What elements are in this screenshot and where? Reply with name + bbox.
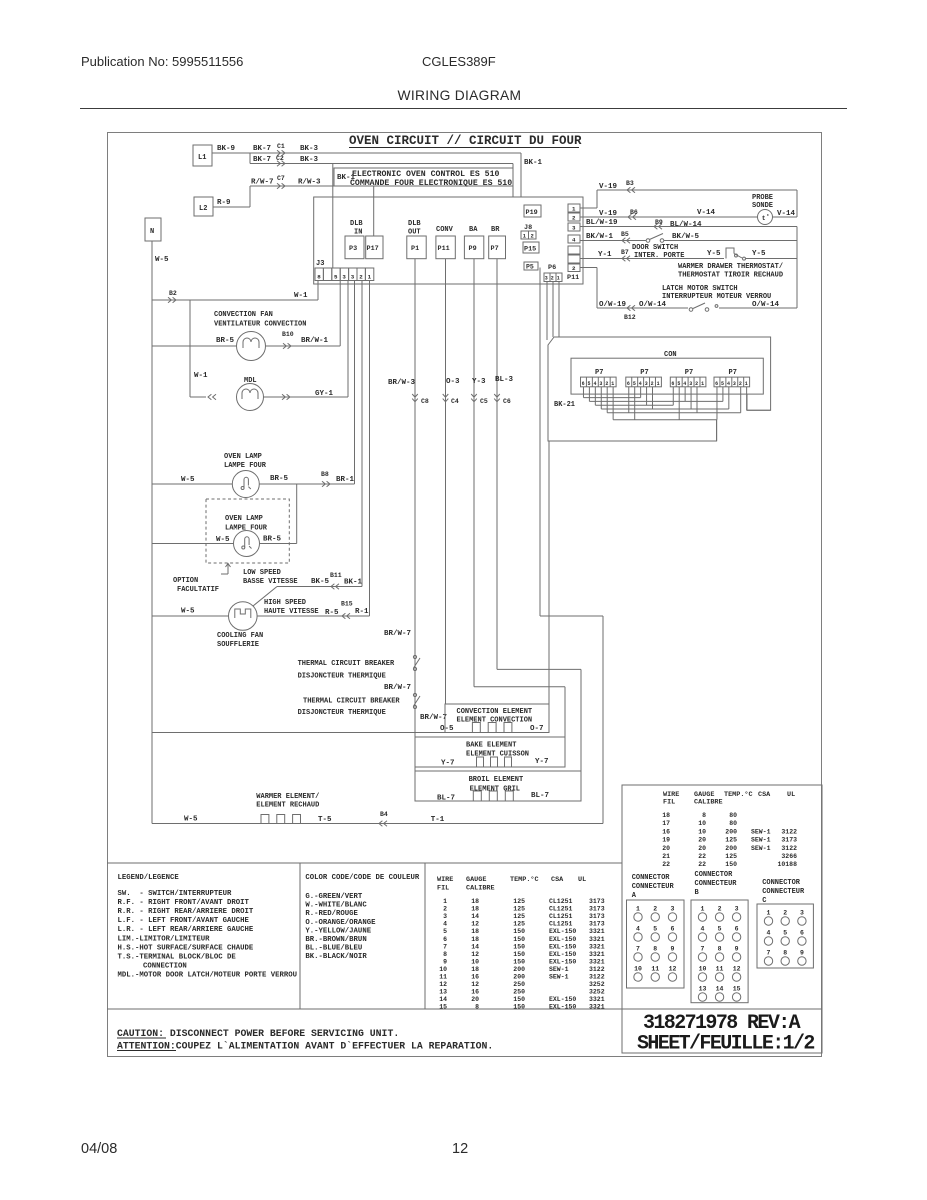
svg-text:BR/W-3: BR/W-3 bbox=[388, 379, 416, 387]
svg-text:DLB: DLB bbox=[350, 220, 363, 228]
connector P6 3-pin strip bbox=[544, 273, 562, 282]
wire BK-7/BK-3 line 2 bbox=[250, 153, 513, 164]
svg-text:9: 9 bbox=[735, 946, 739, 953]
svg-text:Y-5: Y-5 bbox=[752, 250, 766, 258]
svg-text:BA: BA bbox=[469, 226, 478, 234]
wire BL-3 from P7 down to broil element bbox=[495, 259, 581, 801]
svg-text:P15: P15 bbox=[524, 246, 536, 254]
warmer drawer thermostat label bbox=[678, 263, 783, 280]
svg-text:W.-WHITE/BLANC: W.-WHITE/BLANC bbox=[305, 902, 367, 910]
svg-text:P11: P11 bbox=[567, 274, 579, 282]
svg-text:BR-5: BR-5 bbox=[270, 475, 289, 483]
cooling fan label bbox=[217, 632, 263, 649]
svg-text:1: 1 bbox=[557, 276, 560, 282]
svg-text:20: 20 bbox=[698, 837, 706, 844]
warmer element label bbox=[256, 793, 319, 810]
splice B11 bbox=[331, 584, 339, 590]
svg-text:INTERRUPTEUR MOTEUR VERROU: INTERRUPTEUR MOTEUR VERROU bbox=[662, 293, 771, 301]
svg-text:O.-ORANGE/ORANGE: O.-ORANGE/ORANGE bbox=[305, 919, 376, 927]
svg-text:80: 80 bbox=[729, 812, 737, 819]
svg-text:4: 4 bbox=[767, 930, 771, 937]
svg-text:COOLING FAN: COOLING FAN bbox=[217, 632, 263, 640]
page header publication number bbox=[81, 54, 243, 69]
svg-text:8: 8 bbox=[702, 812, 706, 819]
wire P5 branch down to bottom rail bbox=[540, 268, 603, 824]
svg-text:EXL-150: EXL-150 bbox=[549, 936, 576, 943]
svg-text:SHEET/FEUILLE:1/2: SHEET/FEUILLE:1/2 bbox=[637, 1033, 814, 1056]
svg-text:BL/W-19: BL/W-19 bbox=[586, 219, 618, 227]
svg-text:5: 5 bbox=[443, 928, 447, 935]
svg-text:Y-7: Y-7 bbox=[535, 758, 549, 766]
svg-text:12: 12 bbox=[471, 921, 479, 928]
svg-text:3: 3 bbox=[689, 381, 692, 387]
svg-text:FIL: FIL bbox=[437, 885, 449, 893]
svg-text:J3: J3 bbox=[316, 260, 324, 268]
svg-text:R.F. - RIGHT FRONT/AVANT DROIT: R.F. - RIGHT FRONT/AVANT DROIT bbox=[118, 899, 250, 907]
connector BR label bbox=[491, 226, 500, 234]
svg-text:O/W-14: O/W-14 bbox=[639, 301, 667, 309]
splice B8 bbox=[322, 481, 330, 487]
splice B7 bbox=[622, 256, 630, 262]
svg-text:3321: 3321 bbox=[589, 951, 605, 958]
wire W-5 to oven lamp 1 bbox=[152, 476, 232, 484]
connector P7 on board bbox=[489, 236, 506, 259]
svg-text:BL-7: BL-7 bbox=[437, 795, 455, 803]
svg-text:10: 10 bbox=[698, 820, 706, 827]
svg-text:1: 1 bbox=[701, 906, 705, 913]
svg-text:Y-5: Y-5 bbox=[707, 250, 721, 258]
svg-text:3321: 3321 bbox=[589, 928, 605, 935]
svg-text:LIM.-LIMITOR/LIMITEUR: LIM.-LIMITOR/LIMITEUR bbox=[118, 935, 211, 943]
svg-text:3252: 3252 bbox=[589, 981, 605, 988]
svg-text:OVEN LAMP: OVEN LAMP bbox=[224, 453, 262, 461]
svg-text:5: 5 bbox=[718, 926, 722, 933]
wires P6 pins down to CON box bbox=[547, 282, 559, 341]
svg-text:P11: P11 bbox=[438, 245, 450, 253]
caution text bbox=[117, 1028, 493, 1052]
svg-text:LEGEND/LEGENCE: LEGEND/LEGENCE bbox=[118, 874, 180, 882]
svg-text:150: 150 bbox=[513, 958, 525, 965]
svg-text:CONNECTOR: CONNECTOR bbox=[632, 874, 671, 882]
splice B5 bbox=[622, 238, 630, 244]
svg-text:O-3: O-3 bbox=[446, 378, 460, 386]
svg-text:C5: C5 bbox=[480, 398, 488, 405]
motor convection fan bbox=[237, 332, 266, 361]
svg-text:3122: 3122 bbox=[589, 966, 605, 973]
svg-text:17: 17 bbox=[662, 820, 670, 827]
svg-text:L.R. - LEFT REAR/ARRIERE GAUCH: L.R. - LEFT REAR/ARRIERE GAUCHE bbox=[118, 926, 254, 934]
svg-text:8: 8 bbox=[653, 946, 657, 953]
svg-text:150: 150 bbox=[513, 936, 525, 943]
svg-text:2: 2 bbox=[651, 381, 654, 387]
svg-text:P17: P17 bbox=[367, 245, 379, 253]
svg-text:11: 11 bbox=[651, 966, 659, 973]
svg-text:CL1251: CL1251 bbox=[549, 921, 573, 928]
svg-text:MDL: MDL bbox=[244, 377, 257, 385]
svg-text:2: 2 bbox=[718, 906, 722, 913]
svg-text:W-1: W-1 bbox=[294, 292, 308, 300]
svg-text:CONNECTOR: CONNECTOR bbox=[762, 879, 801, 887]
svg-text:W-5: W-5 bbox=[181, 608, 195, 616]
wire drop line2 to board at box edge bbox=[512, 164, 514, 198]
svg-text:P7: P7 bbox=[685, 369, 693, 377]
svg-text:Publication No: 5995511556: Publication No: 5995511556 bbox=[81, 54, 243, 69]
svg-text:R.-RED/ROUGE: R.-RED/ROUGE bbox=[305, 910, 358, 918]
splice B2 bbox=[168, 297, 176, 303]
svg-text:OPTION: OPTION bbox=[173, 577, 198, 585]
svg-text:UL: UL bbox=[787, 791, 795, 799]
low speed label bbox=[243, 569, 298, 586]
svg-text:B12: B12 bbox=[624, 314, 636, 321]
svg-text:P3: P3 bbox=[349, 245, 357, 253]
svg-text:7: 7 bbox=[443, 943, 447, 950]
svg-text:15: 15 bbox=[733, 986, 741, 993]
svg-text:CONNECTEUR: CONNECTEUR bbox=[695, 880, 738, 888]
svg-text:6: 6 bbox=[443, 936, 447, 943]
svg-text:150: 150 bbox=[513, 1004, 525, 1011]
svg-text:IN: IN bbox=[354, 229, 362, 237]
svg-text:W-5: W-5 bbox=[181, 476, 195, 484]
svg-text:EXL-150: EXL-150 bbox=[549, 928, 576, 935]
svg-text:B10: B10 bbox=[282, 331, 294, 338]
svg-text:125: 125 bbox=[725, 837, 737, 844]
svg-text:1: 1 bbox=[657, 381, 660, 387]
svg-text:B4: B4 bbox=[380, 811, 388, 818]
svg-text:FACULTATIF: FACULTATIF bbox=[177, 586, 219, 594]
connector J3 label bbox=[316, 260, 324, 268]
svg-text:FIL: FIL bbox=[663, 799, 675, 807]
svg-text:B11: B11 bbox=[330, 572, 342, 579]
svg-text:BR-5: BR-5 bbox=[216, 337, 235, 345]
svg-text:B8: B8 bbox=[321, 471, 329, 478]
board edge pin boxes 1-4 and 2 bbox=[568, 204, 580, 272]
warmer drawer thermostat switch bbox=[707, 248, 766, 260]
svg-text:19: 19 bbox=[662, 837, 670, 844]
svg-text:BK-7: BK-7 bbox=[253, 145, 271, 153]
svg-text:3321: 3321 bbox=[589, 936, 605, 943]
svg-text:5: 5 bbox=[633, 381, 636, 387]
svg-text:BK-1: BK-1 bbox=[344, 579, 363, 587]
svg-text:P7: P7 bbox=[640, 369, 648, 377]
svg-text:6: 6 bbox=[735, 926, 739, 933]
svg-text:2: 2 bbox=[653, 906, 657, 913]
svg-text:CONNECTOR: CONNECTOR bbox=[695, 871, 734, 879]
svg-text:150: 150 bbox=[513, 996, 525, 1003]
connector P11 bbox=[436, 236, 455, 259]
svg-text:10: 10 bbox=[471, 958, 479, 965]
svg-text:P7: P7 bbox=[729, 369, 737, 377]
svg-text:DOOR SWITCH: DOOR SWITCH bbox=[632, 244, 678, 252]
svg-text:B3: B3 bbox=[626, 180, 634, 187]
wire BR/W-1 from convection fan to J3 bbox=[266, 281, 341, 347]
svg-text:GAUGE: GAUGE bbox=[466, 876, 486, 884]
svg-text:CONNECTEUR: CONNECTEUR bbox=[632, 883, 675, 891]
connector J8 label bbox=[524, 224, 532, 232]
wire CON box right drop to convection element bbox=[548, 441, 550, 704]
svg-text:CL1251: CL1251 bbox=[549, 906, 573, 913]
header rule bbox=[80, 108, 847, 110]
svg-text:LOW SPEED: LOW SPEED bbox=[243, 569, 281, 577]
splice C6 bbox=[494, 394, 511, 405]
svg-text:3252: 3252 bbox=[589, 989, 605, 996]
page header model CGLES389F bbox=[422, 54, 496, 69]
svg-text:CONV: CONV bbox=[436, 226, 454, 234]
wire R-9 from L2 bbox=[213, 186, 250, 207]
svg-text:WARMER DRAWER THERMOSTAT/: WARMER DRAWER THERMOSTAT/ bbox=[678, 263, 783, 271]
splice C5 bbox=[471, 394, 488, 405]
electronic oven control label box ES 510 bbox=[334, 168, 513, 188]
svg-text:4: 4 bbox=[639, 381, 642, 387]
svg-text:V-19: V-19 bbox=[599, 210, 618, 218]
svg-text:BL-7: BL-7 bbox=[531, 792, 549, 800]
wire O/W-14 to right rail bbox=[719, 259, 797, 310]
connector P6 label bbox=[548, 264, 556, 272]
svg-text:3: 3 bbox=[572, 225, 576, 232]
svg-text:4: 4 bbox=[727, 381, 730, 387]
svg-text:THERMAL CIRCUIT BREAKER: THERMAL CIRCUIT BREAKER bbox=[303, 698, 400, 706]
wire BK-21 label bbox=[554, 401, 575, 409]
svg-text:6: 6 bbox=[582, 381, 585, 387]
svg-text:4: 4 bbox=[572, 237, 576, 244]
svg-text:125: 125 bbox=[513, 898, 525, 905]
svg-text:WIRING DIAGRAM: WIRING DIAGRAM bbox=[398, 88, 522, 103]
connector DLB IN label bbox=[350, 220, 363, 237]
svg-text:SEW-1: SEW-1 bbox=[549, 966, 569, 973]
svg-text:20: 20 bbox=[471, 996, 479, 1003]
svg-text:3173: 3173 bbox=[589, 898, 605, 905]
wire gauge table (bottom middle) bbox=[437, 875, 605, 1011]
svg-text:2: 2 bbox=[531, 233, 534, 240]
svg-text:t: t bbox=[762, 215, 766, 222]
wire Y-3 from P9 down to bake element bbox=[472, 259, 565, 767]
page title WIRING DIAGRAM bbox=[398, 88, 522, 103]
svg-text:8: 8 bbox=[783, 950, 787, 957]
svg-text:O/W-14: O/W-14 bbox=[752, 301, 780, 309]
svg-text:10: 10 bbox=[439, 966, 447, 973]
svg-text:N: N bbox=[150, 228, 154, 236]
svg-text:150: 150 bbox=[725, 861, 737, 868]
svg-text:BK.-BLACK/NOIR: BK.-BLACK/NOIR bbox=[305, 953, 367, 961]
svg-text:W-5: W-5 bbox=[184, 816, 198, 824]
wire BK-9/BK-7/BK-3 line 1 bbox=[212, 145, 521, 153]
svg-text:P6: P6 bbox=[548, 264, 556, 272]
svg-text:18: 18 bbox=[471, 928, 479, 935]
splice B6 bbox=[628, 214, 636, 220]
svg-text:10: 10 bbox=[698, 828, 706, 835]
svg-text:4: 4 bbox=[443, 921, 447, 928]
connector DLB OUT label bbox=[408, 220, 421, 237]
svg-text:BASSE VITESSE: BASSE VITESSE bbox=[243, 578, 298, 586]
door switch INTER. PORTE bbox=[632, 234, 684, 261]
svg-text:4: 4 bbox=[593, 381, 596, 387]
svg-text:EXL-150: EXL-150 bbox=[549, 1004, 576, 1011]
connector BA label bbox=[469, 226, 478, 234]
svg-text:THERMAL CIRCUIT BREAKER: THERMAL CIRCUIT BREAKER bbox=[298, 660, 395, 668]
svg-text:P1: P1 bbox=[411, 245, 419, 253]
splice C7 bbox=[277, 175, 285, 189]
svg-text:EXL-150: EXL-150 bbox=[549, 996, 576, 1003]
svg-text:2: 2 bbox=[572, 265, 576, 272]
svg-text:BK-3: BK-3 bbox=[300, 145, 319, 153]
svg-text:ELEMENT GRIL: ELEMENT GRIL bbox=[470, 786, 520, 794]
svg-text:6: 6 bbox=[627, 381, 630, 387]
svg-text:BK-5: BK-5 bbox=[311, 578, 330, 586]
svg-text:COMMANDE FOUR ELECTRONIQUE ES: COMMANDE FOUR ELECTRONIQUE ES 510 bbox=[350, 179, 512, 188]
svg-text:12: 12 bbox=[733, 966, 741, 973]
lamp oven lamp 2 (optional) bbox=[234, 531, 260, 557]
svg-text:O/W-19: O/W-19 bbox=[599, 301, 627, 309]
splice C8 bbox=[412, 394, 429, 405]
svg-text:BR/W-7: BR/W-7 bbox=[420, 714, 447, 722]
control board outline bbox=[314, 197, 583, 284]
svg-text:R-9: R-9 bbox=[217, 199, 231, 207]
connector P11 label right column bbox=[567, 274, 579, 282]
terminal L2 bbox=[194, 197, 213, 216]
svg-text:SEW-1: SEW-1 bbox=[751, 837, 771, 844]
svg-text:125: 125 bbox=[513, 921, 525, 928]
svg-text:18: 18 bbox=[471, 906, 479, 913]
wire B2 / W-1 neutral feed bbox=[152, 281, 318, 301]
connector P3 bbox=[345, 236, 364, 259]
svg-text:18: 18 bbox=[471, 966, 479, 973]
svg-text:L1: L1 bbox=[198, 154, 206, 162]
svg-text:BR.-BROWN/BRUN: BR.-BROWN/BRUN bbox=[305, 936, 366, 944]
svg-text:SEW-1: SEW-1 bbox=[751, 828, 771, 835]
svg-text:200: 200 bbox=[725, 828, 737, 835]
motor cooling fan bbox=[229, 602, 258, 631]
svg-text:B2: B2 bbox=[169, 290, 177, 297]
svg-text:MDL.-MOTOR DOOR LATCH/MOTEUR P: MDL.-MOTOR DOOR LATCH/MOTEUR PORTE VERRO… bbox=[118, 971, 298, 979]
svg-text:CL1251: CL1251 bbox=[549, 913, 573, 920]
wire bottom rail W-5 / T-5 / T-1 with warmer element bbox=[152, 811, 603, 824]
svg-text:1: 1 bbox=[572, 206, 576, 213]
svg-text:8: 8 bbox=[443, 951, 447, 958]
svg-text:3321: 3321 bbox=[589, 943, 605, 950]
svg-text:2: 2 bbox=[739, 381, 742, 387]
sheet number SHEET/FEUILLE:1/2 bbox=[637, 1033, 814, 1056]
wire Y-1 from pin6 bbox=[580, 249, 724, 259]
wire R-5/R-1 high speed to J3 bbox=[257, 281, 369, 618]
svg-text:5: 5 bbox=[721, 381, 724, 387]
svg-text:18: 18 bbox=[662, 812, 670, 819]
node CON label bbox=[664, 351, 677, 359]
svg-text:3321: 3321 bbox=[589, 958, 605, 965]
svg-text:ELECTRONIC OVEN CONTROL ES 510: ELECTRONIC OVEN CONTROL ES 510 bbox=[352, 170, 499, 179]
svg-text:C4: C4 bbox=[451, 398, 459, 405]
splice B9 bbox=[654, 224, 662, 230]
svg-text:150: 150 bbox=[513, 943, 525, 950]
svg-text:9: 9 bbox=[671, 946, 675, 953]
svg-text:5: 5 bbox=[783, 930, 787, 937]
svg-text:1: 1 bbox=[636, 906, 640, 913]
CON interconnect wire mesh bbox=[583, 387, 770, 441]
svg-text:LAMPE FOUR: LAMPE FOUR bbox=[225, 525, 268, 533]
wire V-19/V-14 probe line from pin2 bbox=[580, 190, 797, 218]
svg-text:6: 6 bbox=[671, 926, 675, 933]
svg-text:6: 6 bbox=[715, 381, 718, 387]
CON outer box bbox=[548, 337, 771, 441]
svg-text:80: 80 bbox=[729, 820, 737, 827]
wire BK-1 label at board box bbox=[337, 174, 356, 182]
svg-text:BL-3: BL-3 bbox=[495, 376, 514, 384]
svg-text:8: 8 bbox=[317, 274, 321, 281]
wire gauge table (part number box) bbox=[662, 790, 797, 868]
svg-text:BR/W-1: BR/W-1 bbox=[301, 337, 329, 345]
svg-text:2: 2 bbox=[551, 276, 554, 282]
svg-text:DISJONCTEUR THERMIQUE: DISJONCTEUR THERMIQUE bbox=[298, 673, 386, 681]
svg-text:3: 3 bbox=[599, 381, 602, 387]
svg-text:3321: 3321 bbox=[589, 996, 605, 1003]
wire BK/W-5 from door switch bbox=[664, 227, 797, 242]
splice B3 bbox=[627, 187, 635, 193]
svg-text:4: 4 bbox=[701, 926, 705, 933]
svg-text:P5: P5 bbox=[526, 264, 534, 271]
svg-text:P7: P7 bbox=[595, 369, 603, 377]
svg-text:V-14: V-14 bbox=[697, 209, 716, 217]
wire O/W-19 from pin 2 (latch) bbox=[580, 268, 688, 310]
motor MDL door latch bbox=[237, 377, 264, 411]
svg-text:14: 14 bbox=[471, 943, 479, 950]
svg-text:3: 3 bbox=[800, 910, 804, 917]
svg-text:HAUTE VITESSE: HAUTE VITESSE bbox=[264, 608, 319, 616]
svg-text:18: 18 bbox=[471, 898, 479, 905]
convection fan label bbox=[214, 311, 306, 329]
splice B15 bbox=[342, 613, 350, 619]
splice C2 bbox=[276, 155, 285, 166]
splice C4 bbox=[443, 394, 459, 405]
svg-text:20: 20 bbox=[698, 845, 706, 852]
connector C pin layout bbox=[757, 879, 813, 968]
svg-text:3: 3 bbox=[351, 274, 355, 281]
svg-text:3: 3 bbox=[671, 906, 675, 913]
svg-text:LATCH MOTOR SWITCH: LATCH MOTOR SWITCH bbox=[662, 285, 738, 293]
svg-text:150: 150 bbox=[513, 928, 525, 935]
wire W-5 to oven lamp 2 bbox=[152, 536, 234, 544]
svg-text:8: 8 bbox=[475, 1004, 479, 1011]
part number 318271978 REV:A bbox=[643, 1012, 801, 1035]
svg-text:18: 18 bbox=[471, 936, 479, 943]
svg-text:O-5: O-5 bbox=[440, 725, 454, 733]
svg-text:LAMPE FOUR: LAMPE FOUR bbox=[224, 462, 267, 470]
wire GY-1 from MDL to J3 bbox=[264, 281, 349, 399]
terminal L1 bbox=[193, 145, 212, 166]
wire BR/W-3 from P1 down bbox=[388, 259, 416, 801]
splice B12 bbox=[624, 305, 636, 321]
svg-text:R/W-3: R/W-3 bbox=[298, 179, 321, 187]
svg-text:SONDE: SONDE bbox=[752, 202, 773, 210]
svg-text:EXL-150: EXL-150 bbox=[549, 943, 576, 950]
svg-text:22: 22 bbox=[698, 861, 706, 868]
thermal circuit breaker 2 bbox=[298, 693, 420, 717]
svg-text:3173: 3173 bbox=[589, 921, 605, 928]
svg-text:ELEMENT CONVECTION: ELEMENT CONVECTION bbox=[457, 717, 533, 725]
wire BK-5/BK-1 low speed to J3 bbox=[253, 281, 363, 607]
svg-text:BAKE ELEMENT: BAKE ELEMENT bbox=[466, 742, 516, 750]
wire BL/W-19 / BL/W-14 from pin3 bbox=[580, 219, 797, 229]
svg-text:04/08: 04/08 bbox=[81, 1141, 117, 1157]
svg-text:PROBE: PROBE bbox=[752, 194, 773, 202]
svg-text:9: 9 bbox=[443, 958, 447, 965]
svg-text:CALIBRE: CALIBRE bbox=[466, 885, 495, 893]
svg-text:CL1251: CL1251 bbox=[549, 898, 573, 905]
schematic title OVEN CIRCUIT bbox=[349, 134, 582, 148]
svg-text:4: 4 bbox=[636, 926, 640, 933]
svg-text:R/W-7: R/W-7 bbox=[251, 179, 274, 187]
svg-text:OVEN LAMP: OVEN LAMP bbox=[225, 515, 263, 523]
svg-text:WIRE: WIRE bbox=[437, 876, 453, 884]
connector P1 bbox=[407, 236, 426, 259]
svg-text:3: 3 bbox=[645, 381, 648, 387]
